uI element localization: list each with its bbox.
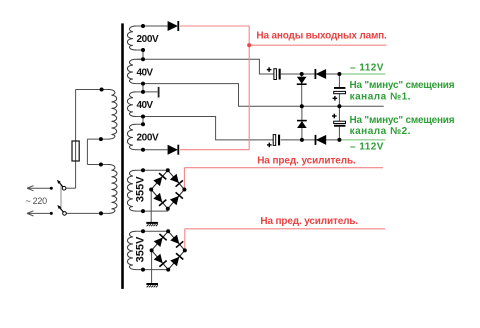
svg-text:40V: 40V: [137, 100, 154, 111]
svg-text:канала №2.: канала №2.: [350, 126, 411, 137]
svg-text:На "минус" смещения: На "минус" смещения: [350, 80, 455, 91]
svg-text:канала №1.: канала №1.: [350, 91, 411, 102]
svg-text:355V: 355V: [135, 176, 147, 202]
svg-text:355V: 355V: [135, 236, 147, 262]
svg-text:40V: 40V: [137, 67, 154, 78]
svg-text:200V: 200V: [137, 132, 159, 143]
svg-text:На "минус" смещения: На "минус" смещения: [350, 115, 455, 126]
svg-text:На аноды выходных ламп.: На аноды выходных ламп.: [256, 30, 387, 41]
svg-text:200V: 200V: [137, 34, 159, 45]
svg-text:– 112V: – 112V: [350, 141, 384, 152]
svg-text:~ 220: ~ 220: [26, 196, 48, 206]
svg-text:На пред. усилитель.: На пред. усилитель.: [260, 216, 358, 227]
svg-text:– 112V: – 112V: [350, 63, 384, 74]
svg-text:На пред. усилитель.: На пред. усилитель.: [257, 155, 356, 166]
